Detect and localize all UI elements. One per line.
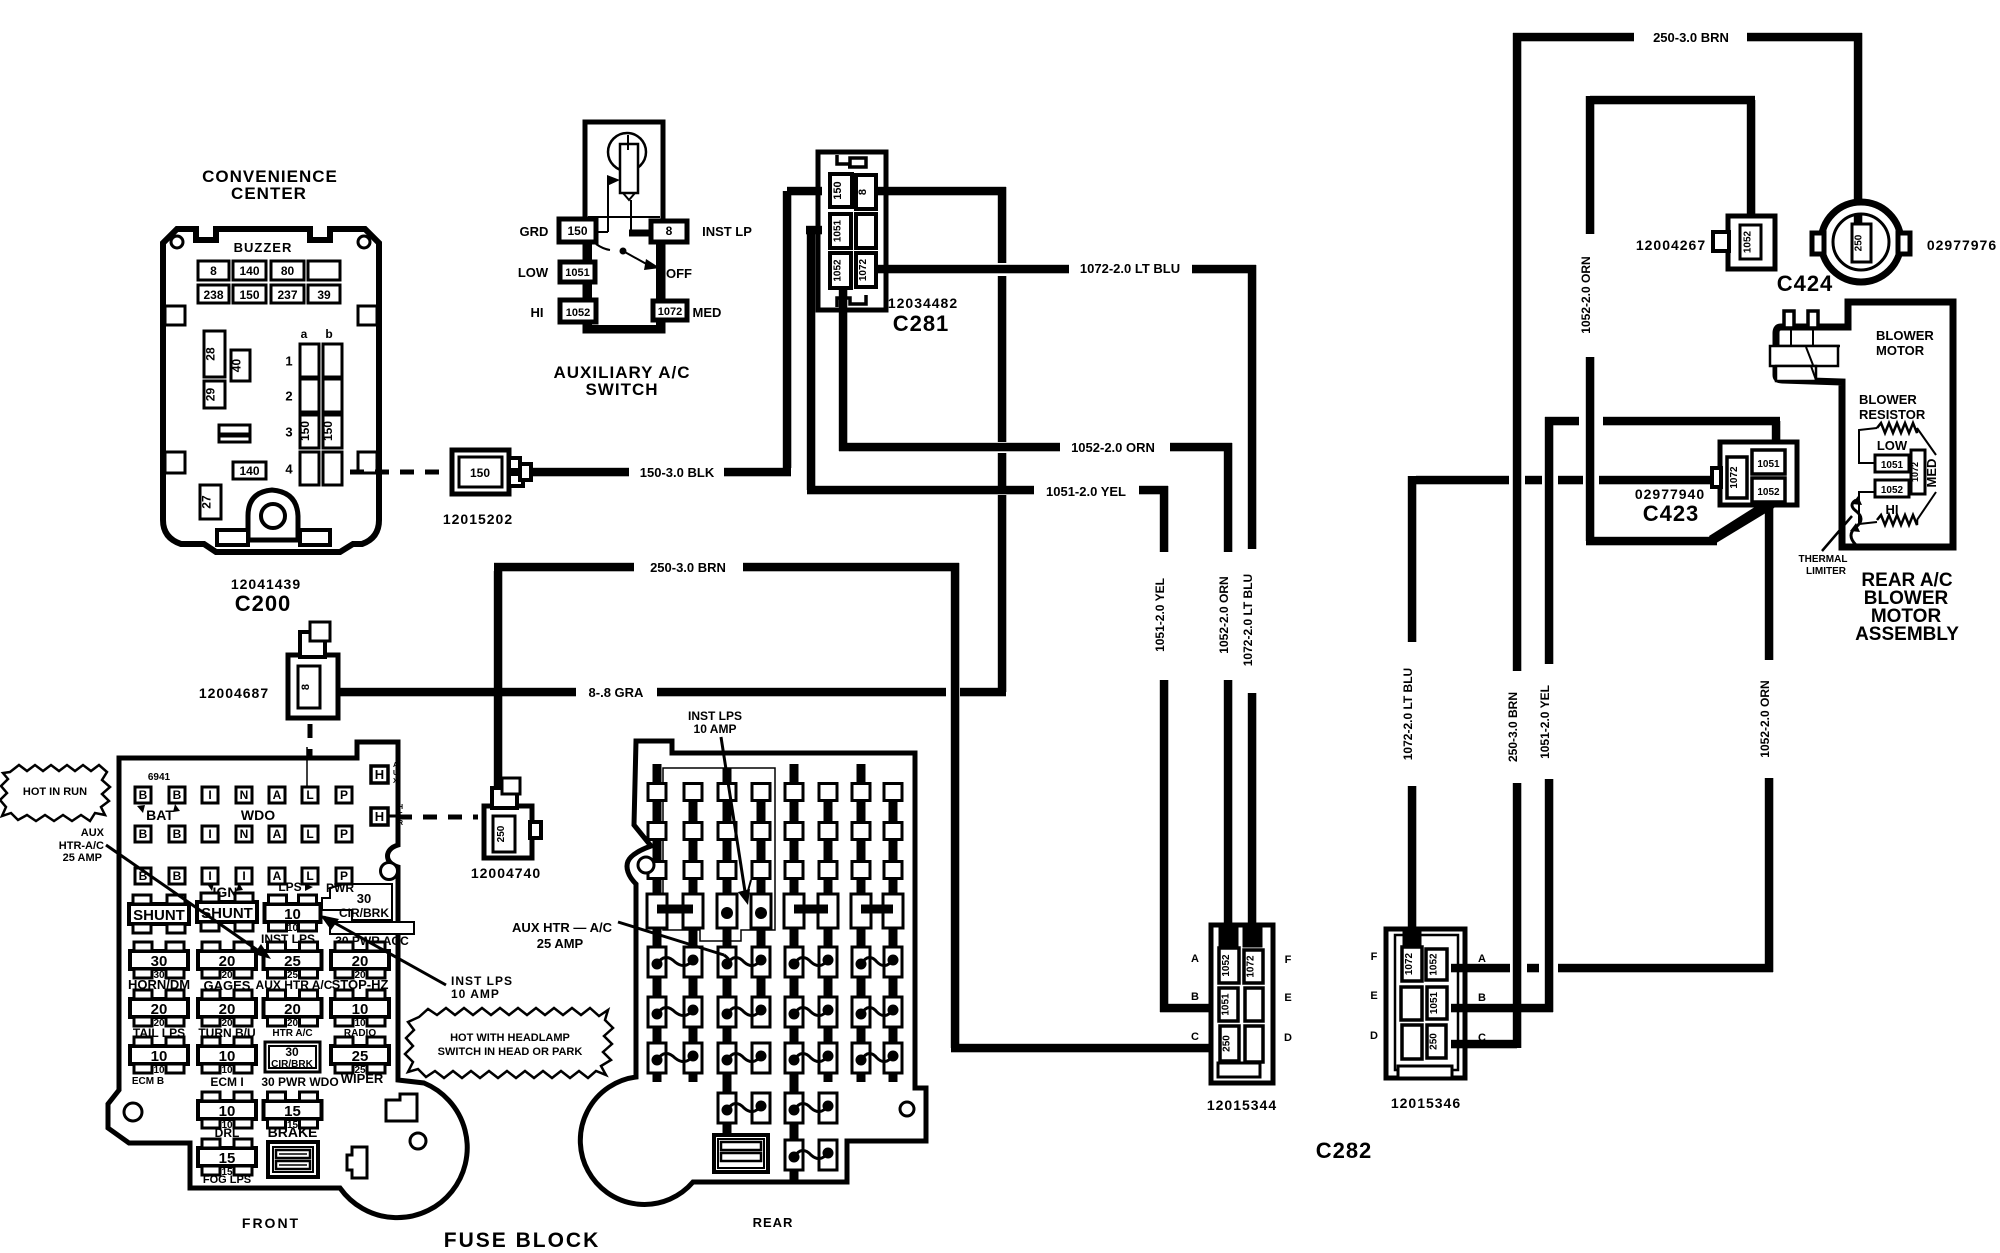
relay 40 (230, 350, 251, 381)
svg-text:B: B (173, 827, 182, 841)
svg-text:THERMAL: THERMAL (1799, 554, 1848, 565)
bottom mount lug (248, 490, 298, 540)
wire 8 from C281 pin 8 (876, 187, 1006, 688)
bulb feed arrow (596, 175, 653, 237)
svg-text:1052-2.0 ORN: 1052-2.0 ORN (1217, 576, 1231, 653)
rear block bus bars (653, 764, 898, 1180)
label BLOWER MOTOR (1876, 328, 1934, 358)
svg-text:HTR A/C: HTR A/C (272, 1028, 312, 1039)
label 2 (285, 389, 292, 404)
C281 pin 8 (856, 175, 876, 209)
svg-text:A: A (393, 762, 398, 769)
label 1 (285, 354, 292, 369)
rear block squiggle row 3 (648, 1043, 902, 1073)
label C200 (235, 591, 292, 616)
svg-text:C424: C424 (1777, 271, 1834, 296)
connector 12015346 body (1386, 929, 1465, 1078)
svg-text:A: A (1478, 953, 1486, 965)
svg-text:MOTOR: MOTOR (1876, 343, 1925, 358)
terminal N r1c4 (236, 787, 252, 803)
svg-text:1072: 1072 (1404, 952, 1415, 975)
leader INST LPS to fuse (320, 915, 446, 985)
svg-text:15: 15 (219, 1150, 236, 1167)
terminal B r2c2 (169, 826, 185, 842)
svg-text:L: L (306, 827, 313, 841)
vertical label 1051-2.0 YEL right (1538, 685, 1552, 759)
label FRONT (242, 1215, 300, 1231)
svg-text:ASSEMBLY: ASSEMBLY (1855, 624, 1959, 645)
label 8-.8 GRA (589, 685, 645, 700)
fuse INST LPS 10 (265, 895, 321, 934)
terminal L r2c6 (302, 826, 318, 842)
svg-text:150-3.0 BLK: 150-3.0 BLK (640, 465, 715, 480)
fuse 15 BRAKE (264, 1092, 322, 1131)
vertical label 1052-2.0 ORN (1217, 576, 1231, 653)
svg-text:BAT: BAT (146, 807, 174, 823)
svg-text:LIMITER: LIMITER (1806, 566, 1847, 577)
screw hole top-left (171, 236, 183, 248)
label ECM I (210, 1075, 243, 1089)
terminal H AUX (371, 762, 398, 785)
terminal P r1c7 (336, 787, 352, 803)
svg-text:25 AMP: 25 AMP (537, 936, 584, 951)
front block slot upper (386, 1094, 417, 1121)
buzzer fuse 80 (271, 261, 304, 280)
svg-text:10: 10 (219, 1103, 236, 1120)
label 1051-2.0 YEL (1046, 484, 1126, 499)
fuse 20 HTR A/C (264, 990, 322, 1029)
svg-text:1052-2.0 ORN: 1052-2.0 ORN (1579, 256, 1593, 333)
label 250-3.0 BRN top (1653, 30, 1729, 45)
label 02977940 (1635, 486, 1705, 502)
wire 1052-2.0 ORN right vertical upper (1765, 503, 1774, 660)
wire 1052-2.0 ORN row A run (1451, 964, 1773, 973)
label a (301, 327, 308, 341)
wire 1072-2.0 LT BLU from C281 (876, 265, 1069, 274)
12015344 letter D (1284, 1032, 1292, 1044)
svg-text:BLOWER: BLOWER (1859, 392, 1917, 407)
fuse 20 STOP-HZ (331, 942, 389, 981)
wire 250-3.0 BRN up from 12004740 (494, 563, 634, 800)
svg-text:1072: 1072 (1246, 955, 1257, 978)
12015344 pin 1052 (1219, 948, 1239, 983)
vertical label 1052-2.0 ORN upper (1579, 256, 1593, 333)
svg-text:1051-2.0 YEL: 1051-2.0 YEL (1538, 685, 1552, 759)
label LOW (518, 265, 549, 280)
svg-text:250-3.0 BRN: 250-3.0 BRN (1506, 692, 1520, 762)
svg-text:D: D (1370, 1030, 1378, 1042)
label 12015344 (1207, 1097, 1277, 1113)
left side tab upper (165, 306, 185, 325)
svg-text:RESISTOR: RESISTOR (1859, 407, 1926, 422)
connector 12004267 (1713, 216, 1775, 269)
connector 12015344 body (1211, 925, 1273, 1083)
svg-text:H: H (375, 809, 384, 824)
vertical label 1072-2.0 LT BLU right (1401, 668, 1415, 760)
label 30 PWR WDO (261, 1075, 338, 1089)
label C281 (893, 311, 950, 336)
buzzer fuse 140 (233, 261, 266, 280)
label 12015346 (1391, 1095, 1461, 1111)
thermal limiter squiggle (1850, 496, 1862, 545)
fuse 10 ECM B (130, 1037, 188, 1076)
dashed link C200 to 12015202 (350, 470, 442, 475)
svg-text:WIPER: WIPER (341, 1071, 384, 1086)
svg-text:10: 10 (151, 1048, 168, 1065)
circuit breaker 30 CIR/BRK top (322, 884, 392, 920)
svg-text:H: H (375, 767, 384, 782)
resistor right diagonals (1917, 428, 1936, 520)
dashed link 12004687 to fuse block (308, 724, 313, 792)
svg-text:b: b (325, 327, 332, 341)
switch bulb divider line (588, 216, 660, 218)
svg-text:C281: C281 (893, 311, 950, 336)
label INST LP (702, 224, 752, 239)
C281 pin 1051 (830, 214, 851, 248)
wire 1072-2.0 LT BLU to vertical (1192, 265, 1256, 549)
12015346 pin blank D (1402, 1025, 1422, 1059)
label AUX HTR-A/C 25 AMP (59, 827, 105, 864)
svg-text:25: 25 (352, 1048, 369, 1065)
svg-text:A: A (1191, 953, 1199, 965)
label 02977976 (1927, 237, 1997, 253)
svg-text:L: L (306, 788, 313, 802)
svg-text:MED: MED (693, 305, 722, 320)
front fuse block outline (108, 742, 467, 1218)
wire 1051-2.0 YEL from C281 (806, 226, 1034, 495)
label STOP-HZ (332, 977, 389, 992)
pin 150 GRD (559, 219, 596, 242)
12015344 letter C (1191, 1031, 1199, 1043)
svg-text:237: 237 (277, 288, 297, 302)
C423 pin 1072 (1727, 457, 1747, 498)
wire 1052-2.0 ORN right vertical lower (1765, 778, 1774, 972)
rear block mount hole tab (900, 1102, 914, 1116)
fuse 39 (308, 285, 340, 303)
svg-text:A: A (273, 788, 282, 802)
svg-text:I: I (208, 788, 211, 802)
svg-text:10: 10 (153, 1065, 165, 1076)
svg-text:CENTER: CENTER (231, 184, 307, 203)
12015346 letter F (1371, 951, 1378, 963)
cavity 4b (323, 452, 342, 485)
svg-text:12015202: 12015202 (443, 511, 513, 527)
wire 1052-2.0 ORN to C423 diagonal (1586, 357, 1782, 545)
svg-text:1051: 1051 (1429, 991, 1440, 1014)
svg-text:20: 20 (352, 953, 369, 970)
label GAGES (204, 978, 251, 993)
connector C423 body (1712, 442, 1797, 505)
C281 pin 1072 (856, 253, 876, 287)
brake connector component (268, 1142, 318, 1177)
hot with headlamp balloon (405, 1008, 613, 1078)
svg-text:CIR/BRK: CIR/BRK (271, 1059, 313, 1070)
svg-text:BLOWER: BLOWER (1876, 328, 1934, 343)
terminal B r3c2 (169, 868, 185, 884)
svg-text:N: N (240, 827, 249, 841)
svg-text:28: 28 (204, 347, 218, 361)
svg-text:T: T (398, 812, 403, 819)
svg-text:8: 8 (210, 264, 217, 278)
connector C281 body (818, 152, 886, 310)
svg-text:150: 150 (298, 421, 312, 441)
C423 pin 1052 (1752, 478, 1785, 502)
label RADIO (344, 1028, 376, 1039)
svg-text:1052-2.0 ORN: 1052-2.0 ORN (1071, 440, 1155, 455)
label 12034482 (888, 295, 958, 311)
12015344 letter B (1191, 991, 1199, 1003)
rear block squiggle row 4 (718, 1093, 837, 1123)
wire 1051-2.0 YEL down to C282 (1160, 680, 1216, 1012)
svg-text:1052: 1052 (1743, 230, 1754, 253)
label C423 (1643, 501, 1700, 526)
wire 1072-2.0 LT BLU right vertical upper (1408, 476, 1417, 642)
svg-text:10: 10 (284, 906, 301, 923)
label DRL (215, 1126, 240, 1140)
cavity 3a label 150 (298, 421, 312, 441)
rear fuse block outline (580, 741, 926, 1204)
12015346 letter E (1370, 990, 1377, 1002)
label 12041439 (231, 576, 301, 592)
svg-text:OFF: OFF (666, 266, 692, 281)
svg-text:250-3.0 BRN: 250-3.0 BRN (650, 560, 726, 575)
svg-text:1072: 1072 (658, 306, 682, 318)
wire 8-.8 GRA middle (657, 688, 946, 697)
svg-text:FUSE BLOCK: FUSE BLOCK (444, 1229, 601, 1248)
right side tab upper (358, 306, 377, 325)
svg-text:F: F (1285, 954, 1292, 966)
svg-text:6941: 6941 (148, 772, 171, 783)
svg-text:1051: 1051 (833, 219, 844, 242)
svg-text:LOW: LOW (1877, 438, 1908, 453)
label C424 (1777, 271, 1834, 296)
label LPS (278, 880, 313, 894)
label FUSE BLOCK (444, 1229, 601, 1252)
svg-text:15: 15 (284, 1103, 301, 1120)
fuse SHUNT 1 (129, 895, 189, 933)
12015346 pin blank E (1401, 987, 1422, 1020)
rear block mount hole upper (638, 857, 654, 873)
rear block brake component (714, 1135, 768, 1172)
switch wiper lever (596, 244, 660, 270)
svg-text:HTR-A/C: HTR-A/C (59, 840, 104, 852)
svg-text:1072: 1072 (1729, 466, 1740, 489)
cavity 3b (323, 415, 342, 448)
label ECM B (132, 1076, 164, 1087)
terminal H HTR (371, 804, 403, 827)
aux A/C switch body (585, 122, 663, 331)
C281 pin blank (856, 214, 876, 248)
blower motor drawing (1770, 311, 1840, 381)
wire 250-3.0 BRN right vertical upper (1513, 33, 1522, 671)
svg-text:20: 20 (284, 1001, 301, 1018)
wire 250-3.0 BRN to C282 pin C (951, 1044, 1216, 1053)
vertical label 1072-2.0 LT BLU (1241, 574, 1255, 666)
buzzer fuse 8 (198, 261, 229, 280)
svg-text:LPS: LPS (278, 880, 301, 894)
relay 28 (204, 331, 226, 377)
buzzer fuse blank (308, 261, 340, 280)
svg-text:C200: C200 (235, 591, 292, 616)
label 3 (285, 425, 292, 440)
svg-text:HI: HI (531, 305, 544, 320)
svg-text:12004687: 12004687 (199, 685, 269, 701)
svg-text:C423: C423 (1643, 501, 1700, 526)
label AUXILIARY A/C SWITCH (553, 363, 690, 399)
leader INST LPS rear (721, 737, 751, 905)
rear block squiggle row 1 (648, 947, 902, 977)
front block mount hole left (124, 1103, 142, 1121)
resistor tap 1072 (1910, 450, 1925, 494)
svg-text:GRD: GRD (520, 224, 549, 239)
svg-text:27: 27 (200, 495, 214, 509)
svg-text:C282: C282 (1316, 1138, 1373, 1163)
12015344 letter A (1191, 953, 1199, 965)
label 150-3.0 BLK (640, 465, 715, 480)
svg-text:B: B (1191, 991, 1199, 1003)
svg-text:HOT WITH HEADLAMP: HOT WITH HEADLAMP (450, 1032, 570, 1044)
fuse 237 (271, 285, 304, 303)
svg-text:X: X (393, 778, 398, 785)
svg-text:BUZZER: BUZZER (234, 240, 293, 255)
blower resistor element top (1877, 423, 1917, 433)
label WDO (241, 807, 275, 823)
pwr acc rect (330, 922, 414, 934)
svg-text:REAR: REAR (753, 1215, 794, 1230)
svg-text:HI: HI (1886, 502, 1899, 517)
terminal B r2c1 (135, 826, 151, 842)
svg-text:12034482: 12034482 (888, 295, 958, 311)
cavity 1a (300, 344, 319, 377)
terminal A r3c5 (269, 868, 285, 884)
rear block row D clips and bridges (647, 894, 903, 928)
pin 1051 LOW (560, 262, 595, 282)
fuse 150 (233, 285, 266, 303)
svg-text:F: F (1371, 951, 1378, 963)
relay 27 (200, 485, 222, 519)
fuse 20 TURN B/U (198, 990, 256, 1029)
resistor tap 1052 (1875, 480, 1909, 497)
screw hole top-right (358, 236, 370, 248)
12015344 pin 1072 (1244, 950, 1263, 983)
rear AC blower assembly outline (1776, 302, 1953, 547)
label TAIL LPS (133, 1026, 185, 1040)
svg-text:1: 1 (285, 354, 292, 369)
label OFF (666, 266, 692, 281)
12015344 pin blank D (1245, 1026, 1263, 1062)
terminal N r2c4 (236, 826, 252, 842)
terminal I r2c3 (202, 826, 218, 842)
svg-text:D: D (1284, 1032, 1292, 1044)
svg-text:30: 30 (151, 953, 168, 970)
svg-text:E: E (1370, 990, 1377, 1002)
label PWR (326, 881, 354, 895)
svg-text:250-3.0 BRN: 250-3.0 BRN (1653, 30, 1729, 45)
label BRAKE (268, 1124, 318, 1140)
svg-text:B: B (173, 788, 182, 802)
hot in run callout balloon (0, 765, 110, 821)
svg-text:N: N (240, 788, 249, 802)
fuse 25 WIPER (331, 1037, 389, 1076)
fuse 10 ECM I (198, 1037, 256, 1076)
svg-text:1052: 1052 (566, 307, 590, 319)
label 250-3.0 BRN left (650, 560, 726, 575)
svg-text:20: 20 (219, 1001, 236, 1018)
svg-text:30: 30 (285, 1045, 299, 1059)
label 12015202 (443, 511, 513, 527)
svg-text:SWITCH IN HEAD OR PARK: SWITCH IN HEAD OR PARK (438, 1046, 583, 1058)
pin 8 INST LP (651, 221, 687, 242)
svg-text:150: 150 (567, 224, 587, 238)
switch bottom bus (586, 325, 662, 331)
dashed link fuse block to 12004740 (398, 815, 478, 820)
svg-text:12004267: 12004267 (1636, 237, 1706, 253)
svg-text:40: 40 (230, 359, 244, 373)
svg-text:12015346: 12015346 (1391, 1095, 1461, 1111)
pointer L column (306, 747, 308, 786)
svg-text:3: 3 (285, 425, 292, 440)
terminal B r1c1 (135, 787, 151, 803)
12015346 letter A (1478, 953, 1486, 965)
svg-text:BRAKE: BRAKE (268, 1124, 318, 1140)
svg-text:SHUNT: SHUNT (133, 907, 185, 924)
label 4 (285, 462, 293, 477)
svg-text:39: 39 (317, 288, 331, 302)
connector C424 ring (1812, 202, 1910, 282)
wire 1072-2.0 LT BLU down to C282 pin F (1248, 693, 1257, 930)
label 1052-2.0 ORN (1071, 440, 1155, 455)
cavity 2b (323, 379, 342, 412)
svg-text:150: 150 (239, 288, 259, 302)
svg-text:1072-2.0 LT BLU: 1072-2.0 LT BLU (1401, 668, 1415, 760)
svg-text:MED: MED (1924, 459, 1939, 488)
wire 150-3.0 BLK horizontal segment from 12015202 (520, 468, 629, 477)
svg-text:10 AMP: 10 AMP (451, 987, 500, 1001)
connector 12015202 (452, 450, 531, 494)
label FOG LPS (203, 1174, 251, 1186)
svg-text:P: P (340, 788, 348, 802)
svg-text:150: 150 (470, 466, 490, 480)
12015346 pin 1072 (1402, 947, 1422, 981)
svg-text:1051: 1051 (1757, 459, 1780, 470)
wire 1052-2.0 ORN down to C282 pin A (1224, 680, 1233, 930)
label 6941 (148, 772, 171, 783)
right side tab lower (358, 452, 377, 473)
svg-text:1072: 1072 (1910, 462, 1920, 482)
label C282 (1316, 1138, 1373, 1163)
fuse SHUNT 2 (197, 893, 257, 931)
svg-text:1052: 1052 (1757, 487, 1780, 498)
svg-text:02977940: 02977940 (1635, 486, 1705, 502)
switch internal bus right (656, 242, 662, 331)
fuse 10 RADIO (331, 990, 389, 1029)
12015344 pin blank E (1245, 988, 1263, 1021)
svg-text:P: P (340, 827, 348, 841)
svg-text:SHUNT: SHUNT (201, 905, 253, 922)
svg-text:1051: 1051 (1221, 993, 1232, 1016)
svg-text:02977976: 02977976 (1927, 237, 1997, 253)
fuse 140 lower (233, 462, 266, 479)
label HI (531, 305, 544, 320)
wire 1051-2.0 YEL C423 run (1545, 417, 1780, 452)
svg-text:1072-2.0 LT BLU: 1072-2.0 LT BLU (1241, 574, 1255, 666)
svg-text:10: 10 (219, 1048, 236, 1065)
fuse 20 TAIL LPS (130, 990, 188, 1029)
svg-text:150: 150 (832, 181, 844, 199)
svg-text:HOT IN RUN: HOT IN RUN (23, 786, 87, 798)
svg-text:12041439: 12041439 (231, 576, 301, 592)
svg-text:1052: 1052 (1881, 485, 1904, 496)
